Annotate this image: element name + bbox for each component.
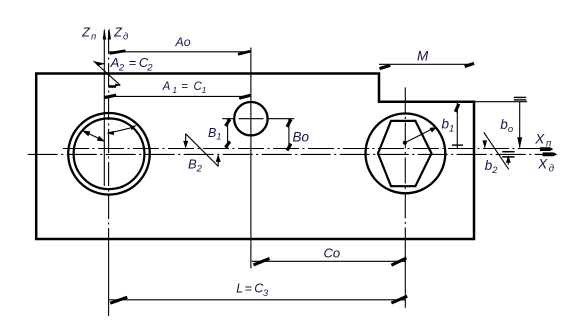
tick M right <box>465 63 474 66</box>
tick Bo top <box>287 119 291 127</box>
hexagon center dot <box>403 141 407 145</box>
svg-text:b1: b1 <box>442 117 455 135</box>
left hole arrow 4 <box>130 125 137 130</box>
tick Co right <box>391 258 406 265</box>
arrow B2 lower <box>217 160 219 166</box>
axis Z_d vertical dash-dot <box>108 30 110 239</box>
dimension A2=C2 diagonal <box>94 61 121 85</box>
arrow axis X_p <box>540 147 553 151</box>
bar bo top 2 <box>514 99 527 101</box>
dimension bo line <box>519 102 521 148</box>
svg-text:=: = <box>129 55 137 70</box>
dimension A1=C1 line <box>104 95 251 97</box>
bar b2 1 <box>502 151 514 153</box>
dimension B1 line <box>227 119 229 149</box>
svg-text:B1: B1 <box>208 126 221 142</box>
dimension b2 diagonal <box>484 132 509 169</box>
tick B1 top <box>225 119 230 126</box>
tick M left <box>380 65 391 68</box>
svg-text:1: 1 <box>172 85 177 95</box>
left hole arc leader <box>109 128 132 133</box>
axis X_p horizontal dash-dot <box>63 148 540 150</box>
svg-text:3: 3 <box>263 288 269 298</box>
line A2 right tip <box>115 84 120 86</box>
dimension Co line <box>252 260 405 262</box>
tick B1 bottom <box>225 142 230 148</box>
svg-text:2: 2 <box>118 62 125 73</box>
arrow A2 left <box>95 61 106 66</box>
svg-text:2: 2 <box>146 62 153 73</box>
svg-text:A: A <box>110 55 120 70</box>
arrow A2 right tip <box>115 84 121 87</box>
svg-text:Bo: Bo <box>293 129 310 144</box>
hole right circle <box>366 113 446 193</box>
center line small hole vertical <box>250 48 252 269</box>
bar bo top 1 <box>514 96 527 98</box>
tick A1 right <box>239 95 250 98</box>
extension B1 top connector <box>222 118 234 120</box>
svg-text:B2: B2 <box>188 156 203 174</box>
svg-text:A: A <box>162 81 171 93</box>
svg-text:1: 1 <box>202 85 207 95</box>
svg-text:Xд: Xд <box>537 157 555 175</box>
svg-text:Zд: Zд <box>113 24 128 42</box>
extension line Z_d below part <box>108 239 110 316</box>
svg-text:b2: b2 <box>485 158 499 176</box>
step surface extension line <box>474 101 527 103</box>
tick Ao right <box>238 51 250 54</box>
left hole arrow 3 <box>106 131 114 135</box>
left hole arrow 2 <box>97 136 105 142</box>
extension Bo top connector <box>268 118 295 120</box>
dimension b1 line <box>456 102 458 149</box>
axis X_d horizontal dash-dot <box>28 153 543 155</box>
svg-text:Co: Co <box>324 246 341 261</box>
svg-text:L: L <box>236 282 243 296</box>
dimension Bo line <box>288 119 290 149</box>
part outline <box>36 74 474 240</box>
arrow b2 lower <box>507 162 509 165</box>
hole small circle Bo <box>234 102 267 135</box>
axis Z_p vertical <box>103 30 105 186</box>
tick Co left <box>254 258 270 265</box>
hexagon <box>378 121 432 186</box>
tick L right <box>391 296 407 303</box>
extension hexagon center below part <box>404 239 406 308</box>
dimension L=C3 line <box>109 299 406 301</box>
dimension Ao line <box>109 51 251 53</box>
arrow axis X_d <box>543 152 558 156</box>
svg-text:M: M <box>417 49 429 64</box>
tick A1 left <box>104 95 116 98</box>
hexagon leader line <box>405 128 434 142</box>
svg-text:=: = <box>181 81 188 93</box>
hole left outer circle <box>68 113 150 195</box>
tick L left <box>110 297 127 303</box>
svg-text:Xп: Xп <box>534 131 552 149</box>
arrow axis Z_d <box>108 28 111 40</box>
tick b1 top <box>455 104 459 112</box>
arrow axis Z_p <box>103 28 106 40</box>
tick Ao left <box>110 51 126 54</box>
dimension M line <box>379 63 474 65</box>
arrow b2 upper <box>483 140 488 148</box>
arrow bo bottom <box>517 137 522 148</box>
left hole arrow 1 <box>82 130 91 136</box>
hole left inner circle <box>74 118 145 189</box>
bar b2 2 <box>502 156 514 158</box>
bar b1 bottom <box>452 144 463 146</box>
center line small hole horizontal <box>239 118 264 120</box>
hexagon leader arrow <box>430 127 438 133</box>
svg-text:Zп: Zп <box>81 24 97 42</box>
svg-text:Ao: Ao <box>175 35 191 49</box>
svg-text:=: = <box>245 282 252 296</box>
dimension B2 diagonal <box>186 134 219 167</box>
svg-text:bo: bo <box>500 117 513 135</box>
center line hexagon vertical <box>404 87 406 239</box>
arrow B2 upper <box>185 134 187 142</box>
bar A2 right <box>108 85 116 88</box>
tick Bo bottom <box>287 144 291 151</box>
